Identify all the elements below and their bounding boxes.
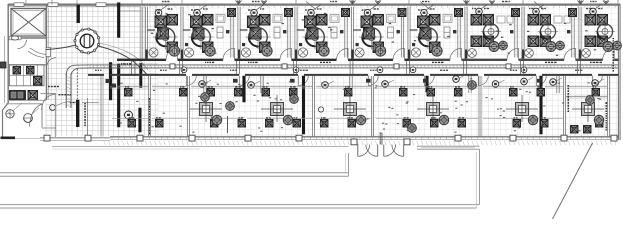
duct label left 14x20 [121, 63, 122, 64]
desk E23 [266, 120, 274, 128]
room U7 annotation specks [509, 24, 511, 25]
room U6 bed/equipment stack [418, 16, 430, 28]
room U1 entry door arc [166, 48, 178, 60]
riser duct vertical left [65, 74, 67, 108]
room U4 lavatory hatched circle [319, 46, 329, 56]
room U4 side cabinet [331, 27, 337, 38]
room U2 lower equipment square [203, 42, 214, 53]
desk D12 [455, 89, 463, 97]
room U3 entry door arc [280, 48, 292, 60]
lobby door arc left [41, 93, 57, 95]
room U2 chair circle [192, 28, 211, 47]
room U1 bed edge line [147, 29, 155, 31]
room U6 bed edge line [410, 29, 418, 31]
room U8 chair circle [540, 24, 555, 39]
wall stub x227 [227, 116, 229, 133]
room1 lower equipment [106, 79, 111, 83]
wall exterior right [618, 4, 620, 140]
keynote balloon J [50, 105, 56, 111]
room U5 chair circle [362, 28, 381, 47]
room U6 entry door arc [450, 48, 462, 60]
poche bar upper left x118 [117, 3, 120, 38]
room U2 lavatory hatched circle [205, 46, 215, 56]
room U7 equipment grid squares [471, 15, 482, 26]
wall oval sink [11, 36, 19, 40]
door arc room2 [18, 40, 27, 49]
console at x277 [271, 103, 284, 116]
room U3 small circle fixture [241, 48, 250, 57]
casework bench left wing [10, 65, 45, 86]
console at x588 [582, 103, 595, 116]
room U4 branch duct [344, 9, 346, 58]
room U9 EQ labels [586, 8, 588, 9]
desk D15 [537, 89, 545, 97]
desk D4 [235, 89, 243, 97]
wall left-wing bottom joins main [40, 137, 110, 139]
room U2 closet casework [216, 15, 225, 23]
transverse duct x133 [131, 61, 133, 76]
room U3 bed edge line [240, 29, 248, 31]
canopy walk east [417, 145, 480, 147]
transverse duct drops lower rooms [203, 76, 205, 93]
room U3 lower equipment square [260, 42, 271, 53]
door arc into lobby grid [47, 58, 56, 66]
desk D10 [400, 89, 408, 97]
room U8 lavatory circles [546, 42, 556, 52]
patio east edge [479, 149, 481, 204]
desk E22 [238, 120, 246, 128]
room U2 annotation specks [188, 14, 190, 15]
poche bar x77 lower [76, 100, 79, 127]
misc circles lower rooms [201, 93, 210, 102]
column ticks above top wall [25, 0, 27, 5]
room U7 entry door arc [507, 48, 519, 60]
small arcs west of rotunda [30, 48, 46, 55]
lower rooms annotation specks [574, 130, 576, 131]
room U1 chair circle [156, 28, 175, 47]
room U6 keynote balloon [421, 9, 428, 16]
room U6 closet casework [443, 15, 452, 23]
wall lower rooms west end [100, 76, 102, 137]
room U9 keynote balloon [590, 8, 597, 15]
hatched unit beside appliance [28, 91, 38, 101]
wire floor-tile grid lower rooms [158, 77, 618, 136]
shaft room X-braced [11, 9, 46, 37]
desk E29 [431, 120, 439, 128]
leader diagonals from top [306, 2, 316, 10]
vertical room label text 2 [149, 98, 151, 100]
dark fixture left edge [1, 62, 7, 68]
room U8 closet casework [554, 16, 562, 23]
wall corridor north (room fronts) [147, 59, 167, 61]
duct elbow to corridor [66, 65, 88, 75]
room U3 side cabinet [274, 27, 280, 38]
duct inline boxes [170, 64, 175, 69]
poche riser bar left corridor [117, 64, 120, 127]
room U8 EQ labels [529, 8, 530, 9]
room U7 keynote balloon [476, 8, 483, 15]
wall stub y128 [42, 127, 56, 129]
room U1 bed/equipment stack [155, 16, 167, 28]
room U7 EQ labels [472, 8, 473, 9]
wire ceiling-grid upper rooms [142, 7, 618, 57]
room U5 bed edge line [353, 29, 361, 31]
room U4 keynote balloon [308, 9, 315, 16]
room U1 annotation specks [157, 17, 159, 18]
rotunda scalloped column wrap [75, 29, 99, 53]
wall corridor south [88, 74, 104, 76]
bottom wall columns [44, 135, 50, 141]
door leaf and arc lower-left [41, 104, 43, 127]
room U6 chair circle [419, 28, 438, 47]
dimension text top margin [162, 1, 164, 2]
room U6 lavatory hatched circle [432, 46, 442, 56]
pipe label left [59, 94, 61, 95]
desk D0 [125, 89, 133, 97]
entrance double doors [357, 145, 359, 157]
wall left-wing lower west + diagonal [3, 103, 9, 110]
desk D8 [345, 89, 353, 97]
wall below shaft [8, 37, 46, 39]
room U7 chair circle [483, 24, 498, 39]
window blocks top-left wall [14, 3, 24, 7]
room U4 EQ labels [305, 9, 307, 10]
room U9 chair circle [597, 24, 612, 39]
console at x522 [516, 103, 529, 116]
sidewalk hatch band under wall [104, 141, 616, 146]
wall y100 left wing [8, 99, 46, 101]
console at x433 [427, 103, 440, 116]
desk D2 [180, 89, 188, 97]
vertical dim text right margin [613, 38, 615, 39]
room U7 small circle fixture [468, 49, 477, 58]
wall lower room partitions [148, 76, 150, 137]
room U3 chair circle [249, 28, 268, 47]
room U8 small circle fixture [525, 49, 534, 58]
desk E35 [596, 120, 604, 128]
wall niche right side [46, 48, 51, 57]
room U3 annotation specks [287, 12, 289, 13]
wire ceiling-grid left area [46, 6, 158, 136]
duct size labels [205, 62, 206, 63]
room U2 small circle fixture [184, 48, 193, 57]
duct hatch ticks [89, 65, 616, 68]
wall exterior bottom [110, 136, 619, 138]
room U6 branch duct [457, 9, 459, 58]
small circle x321 [318, 107, 323, 112]
room U5 lower equipment square [373, 42, 384, 53]
room U1 EQ labels [156, 9, 158, 10]
desk E18 [128, 120, 136, 128]
room U3 keynote balloon [251, 9, 258, 16]
desk E19 [156, 120, 164, 128]
corridor transverse duct drops [179, 61, 181, 75]
room U8 annotation specks [529, 42, 531, 43]
room U3 branch duct [287, 9, 289, 58]
room U5 side cabinet [388, 27, 394, 38]
curved wall left of rotunda [46, 45, 76, 50]
floor drain circle B [24, 114, 33, 123]
room U8 equipment grid squares [528, 15, 539, 26]
room U7 closet casework [497, 16, 505, 23]
poche wall bar A [77, 5, 80, 23]
room U4 wall bits [340, 30, 343, 33]
entrance vestibule stile [379, 133, 381, 145]
interior wall y11 right of lobby [120, 10, 141, 12]
wall exterior top [8, 3, 620, 5]
room U5 branch duct [400, 9, 402, 58]
room U2 wall bits [226, 30, 229, 33]
room U4 entry door arc [337, 48, 349, 60]
room U6 annotation specks [457, 15, 459, 16]
desk E21 [211, 120, 219, 128]
desk E26 [348, 120, 356, 128]
desk D14 [510, 89, 518, 97]
room U4 bed/equipment stack [305, 16, 317, 28]
poche bar x110 [109, 63, 112, 101]
desk D17 [592, 89, 600, 97]
curved wall right of rotunda [98, 46, 147, 75]
room U5 closet casework [387, 15, 396, 23]
top wall mullion ticks [144, 6, 615, 8]
wall left-wing bottom dark end [1, 137, 16, 140]
room U9 annotation specks [588, 15, 590, 16]
leader from drains [13, 103, 22, 111]
room U6 EQ labels [418, 9, 420, 10]
corridor supply duct main run [88, 64, 618, 66]
duct label 14x20 [48, 86, 50, 87]
desk D3 [207, 89, 215, 97]
room U1 lavatory hatched circle [169, 46, 179, 56]
keynote balloon lower-left [125, 111, 133, 119]
patio lower walk edge [0, 204, 480, 206]
room U3 wall bits [283, 30, 286, 33]
room U4 lower equipment square [317, 42, 328, 53]
desk D11 [427, 89, 435, 97]
counter line lower across lower rooms [112, 117, 148, 119]
hatched unit on bench 2 [27, 67, 35, 75]
room U9 small circle fixture [582, 49, 591, 58]
room U4 annotation specks [328, 27, 330, 28]
desk E28 [403, 120, 411, 128]
room U5 annotation specks [376, 24, 378, 25]
room U5 entry door arc [393, 48, 405, 60]
dark appliance block [10, 91, 26, 101]
console at x350 [344, 103, 357, 116]
poche riser bars lower rooms [243, 76, 246, 102]
patio upper walk edge [0, 172, 349, 174]
equipment squares against corridor wall [233, 79, 238, 83]
room U9 lavatory circles [603, 42, 613, 52]
room U8 branch duct [571, 9, 573, 58]
counter line upper across lower rooms [110, 85, 148, 87]
room U8 entry door arc [564, 48, 576, 60]
desk E33 [541, 120, 549, 128]
room U4 bed edge line [297, 29, 305, 31]
room U5 keynote balloon [364, 9, 371, 16]
room U2 entry door arc [223, 48, 235, 60]
console at x206 [200, 103, 213, 116]
desk E32 [513, 120, 521, 128]
lower room entry door arcs [185, 76, 187, 86]
hatched unit on bench 3 [34, 77, 43, 86]
bottom wall window mullion ticks [112, 137, 614, 139]
desk D6 [290, 89, 298, 97]
wall east of left rooms [46, 4, 48, 100]
sidewalk edge below building [52, 146, 349, 148]
room U8 keynote balloon [533, 8, 540, 15]
wall y103.8 lower-left [6, 103, 42, 105]
wall upper rooms west boundary [140, 7, 142, 59]
desk D5 [262, 89, 270, 97]
room U2 branch duct [230, 9, 232, 58]
room U4 small circle fixture [298, 48, 307, 57]
corridor keynote balloons [181, 67, 187, 73]
room U2 keynote balloon [194, 9, 201, 16]
room U2 bed/equipment stack [191, 16, 203, 28]
room U3 bed/equipment stack [248, 16, 260, 28]
poche riser bar 2 [140, 64, 142, 88]
room U5 wall bits [397, 30, 400, 33]
interior wall x55 lower left [54, 94, 56, 137]
room U6 small circle fixture [411, 48, 420, 57]
floor drain circle A [6, 110, 14, 118]
desk E30 [458, 120, 466, 128]
room U2 bed edge line [183, 29, 191, 31]
room U6 side cabinet [444, 27, 450, 38]
room U2 side cabinet [217, 27, 223, 38]
lower room keynote balloons [199, 81, 206, 88]
room U1 small circle fixture [149, 48, 158, 57]
room U4 closet casework [330, 15, 339, 23]
room U1 lower equipment square [167, 42, 178, 53]
wall left-wing west [7, 4, 9, 103]
room U7 branch duct [514, 9, 516, 58]
piping dashed riser x77 [76, 69, 78, 99]
room U3 lavatory hatched circle [262, 46, 272, 56]
room U5 EQ labels [362, 9, 364, 10]
roof diffuser W symbols [261, 1, 267, 5]
wall x87.6 lower-left [87, 98, 89, 135]
extra desks right room [571, 126, 579, 134]
room U2 EQ labels [191, 9, 193, 10]
room U4 chair circle [306, 28, 325, 47]
property diagonal [553, 143, 593, 219]
room U5 bed/equipment stack [361, 16, 373, 28]
room U1 keynote balloon [155, 9, 162, 16]
room U5 small circle fixture [355, 48, 364, 57]
patio walk return [348, 153, 350, 176]
GYAC label [70, 102, 72, 103]
room U7 lavatory circles [489, 42, 499, 52]
desk E24 [293, 120, 301, 128]
room U6 wall bits [453, 30, 456, 33]
room U5 lavatory hatched circle [375, 46, 385, 56]
room U3 EQ labels [248, 9, 251, 10]
wall upper room partitions [144, 7, 146, 59]
vertical room label text [84, 103, 86, 104]
room U6 lower equipment square [430, 42, 441, 53]
hatched unit on bench 1 [13, 67, 21, 75]
room U9 entry door arc [603, 48, 615, 60]
desk E25 [321, 120, 329, 128]
room U9 equipment grid squares [585, 15, 596, 26]
room U3 closet casework [273, 15, 282, 23]
wall mid right room [566, 95, 608, 97]
wall room2/room3 counter edge [8, 64, 46, 66]
